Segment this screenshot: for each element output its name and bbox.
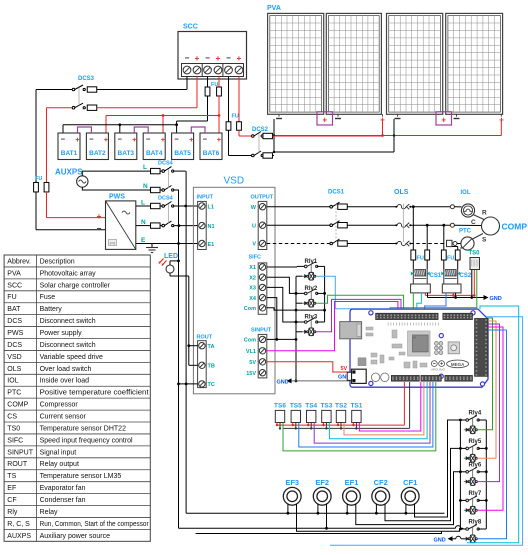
DCS2 label [252,127,269,133]
svg-text:L1: L1 [208,205,214,211]
disconnect switch DCS4b N [151,221,198,228]
svg-text:BAT3: BAT3 [118,150,135,157]
header top B [443,313,473,319]
svg-text:BAT6: BAT6 [203,150,220,157]
svg-text:−: − [203,135,208,144]
svg-text:Rly5: Rly5 [469,439,482,445]
svg-text:Fuse: Fuse [40,294,56,301]
legend table [4,255,150,541]
svg-text:AUXPS: AUXPS [7,533,31,540]
panel feet [279,114,501,116]
battery BAT5 [172,133,195,160]
PVA plus terminal P4 [499,116,504,125]
wire Rly6 coil [477,330,499,482]
svg-text:MEGA: MEGA [451,362,465,367]
wire bundle lightblue [330,317,523,545]
wire W to IOL [410,205,461,209]
fan CF2 [372,487,390,505]
battery jumper BAT5-BAT6 [191,127,205,133]
header top A [376,313,439,319]
svg-text:R: R [482,210,487,217]
svg-text:Variable speed drive: Variable speed drive [40,354,103,361]
svg-text:BAT: BAT [7,306,21,313]
svg-text:TS0: TS0 [7,425,20,432]
pin row labels [388,323,438,326]
svg-text:Abbrev.: Abbrev. [7,258,31,265]
svg-text:TS6: TS6 [274,403,286,410]
svg-text:BAT2: BAT2 [89,150,106,157]
wire CF2 left leg [375,504,378,515]
wire com chain [295,276,303,382]
FU label cs1 [417,256,424,262]
svg-text:VL1: VL1 [246,349,256,355]
svg-text:E1: E1 [208,242,215,248]
mounting hole [480,382,484,386]
wire GND gray [292,380,353,382]
N label pws [141,219,146,226]
svg-text:L: L [141,200,145,207]
wire feeder v2 [185,171,188,513]
temperature sensor TS1 [352,410,361,422]
wire SCC t2 down [196,77,198,108]
ARDUINO text [431,368,446,372]
wire fan bus A [186,512,444,514]
svg-text:Disconnect switch: Disconnect switch [40,342,96,349]
svg-text:S: S [482,237,487,244]
relay Rly2 [302,289,318,307]
wire relay right bus [485,420,488,529]
svg-text:SINPUT: SINPUT [251,328,272,334]
fuse FU pv plus [237,77,242,137]
PVA series jumper J2 [436,112,452,125]
svg-text:CF1: CF1 [403,478,417,487]
wire TB [189,364,198,366]
svg-text:+: + [189,135,194,144]
svg-text:+: + [216,54,221,63]
Rly4 label [469,411,482,417]
svg-text:+: + [322,116,327,125]
svg-text:−: − [174,135,179,144]
svg-text:Battery: Battery [40,306,63,313]
svg-text:CS2: CS2 [460,273,472,279]
svg-text:R, C, S: R, C, S [7,521,30,528]
wire EF3 feed [297,504,467,531]
svg-text:FU: FU [7,294,16,301]
svg-text:Rly4: Rly4 [469,411,482,417]
GND arrow sinput [277,378,292,385]
svg-text:DCS: DCS [7,318,22,325]
svg-text:TS5: TS5 [290,403,302,410]
wire TS1 data [359,382,420,431]
mounting hole [439,374,443,378]
wire PWS E line [136,242,198,245]
svg-text:TS: TS [7,473,16,480]
PVA plus terminal P2 [380,116,385,125]
svg-text:OLS: OLS [394,189,409,196]
wire Rly8 coil [477,330,506,539]
wire bundle [488,329,507,331]
wire bundle cyan [467,306,519,543]
svg-text:CF2: CF2 [374,478,388,487]
svg-text:Rly6: Rly6 [469,463,482,469]
wire TS0 5V [473,270,475,296]
header bottom power [391,375,419,381]
FU label pv [232,114,239,120]
svg-text:IOL: IOL [7,378,18,385]
svg-text:IPM: IPM [110,241,116,245]
ICSP header [435,342,443,355]
svg-text:PVA: PVA [267,5,281,12]
svg-text:CF: CF [7,497,16,504]
disconnect switch DCS2 pole 1 [239,132,383,139]
L label pws [141,200,145,207]
MEGA logo [447,360,469,368]
wire CF1 left leg [405,504,408,515]
wire TS4 data [314,382,430,443]
svg-text:EF: EF [7,485,16,492]
minus label pws [97,224,102,233]
wire relay right bus [317,266,326,322]
wire CS2 blue [425,293,446,313]
X4 label [249,296,257,302]
svg-text:OUTPUT: OUTPUT [251,195,274,201]
wire LED bottom [170,273,189,365]
svg-text:−: − [226,54,231,63]
USB connector [340,322,362,339]
svg-text:Speed input frequency control: Speed input frequency control [40,437,133,444]
power LED group [371,353,384,364]
wire SINPUT Com [267,338,296,340]
GND arrow right [484,295,502,302]
compressor COMP [482,217,500,235]
fuse FU cs2b [452,247,460,270]
GND label jack [338,374,350,380]
svg-text:TS0: TS0 [469,251,481,257]
fuse FU cs1a [411,207,416,269]
svg-text:−: − [61,135,66,144]
svg-text:DCS4: DCS4 [158,161,174,167]
svg-text:+: + [104,135,109,144]
wire CS2 5V [452,293,454,296]
wire 5V rail [425,294,475,297]
wire CS2 gnd [455,293,457,298]
fan CF1 [401,487,419,505]
temperature sensor TS2 [336,410,345,422]
VSD OUTPUT terminals [258,201,267,249]
DCS3 label [78,76,95,82]
wire VL1 magenta [267,302,398,351]
AUXPS label [55,168,83,177]
svg-text:15V: 15V [246,371,256,377]
SIFC label [249,255,262,261]
CF2 label [374,478,388,487]
svg-text:−: − [205,54,210,63]
wire PWS N line [136,225,151,227]
15V label sinput [246,371,256,377]
svg-text:+: + [441,116,446,125]
svg-text:ROUT: ROUT [197,335,213,341]
TB label [208,364,215,370]
FU label left [35,176,42,182]
svg-text:Auxiliary power source: Auxiliary power source [40,533,111,540]
svg-text:SIFC: SIFC [7,437,23,444]
svg-text:N: N [141,219,146,226]
CS1 label [430,273,442,279]
fan EF2 [313,487,331,505]
relay Rly1 [302,262,318,280]
svg-text:Positive temperature coefficie: Positive temperature coefficient [40,390,149,397]
wire TC [179,383,198,385]
wire AUXPS L [82,171,151,176]
relay Rly8 [460,525,486,543]
Rly1 label [305,259,318,265]
wire TS0 data [390,270,477,314]
wire LED top [170,260,180,266]
wire battery minus bus [63,123,178,133]
svg-text:+: + [75,135,80,144]
wire Rly5 coil [477,330,496,458]
svg-text:SIFC: SIFC [249,255,262,261]
svg-text:COMP: COMP [502,222,528,232]
svg-text:BAT4: BAT4 [146,150,163,157]
svg-text:TA: TA [208,344,215,350]
reset button [448,342,459,354]
wire TS2 data [344,382,424,435]
wire TS3 data [329,382,427,439]
EF2 label [315,478,329,487]
svg-text:EF3: EF3 [285,478,299,487]
svg-text:5V: 5V [249,360,256,366]
wire CS1 green [412,293,414,313]
wire PWS L line [136,205,151,207]
svg-text:GND: GND [434,537,446,543]
header right digital [475,318,489,376]
chip 8u2 [358,358,366,366]
fuse FU cs1b [425,225,430,269]
mounting hole [471,311,475,315]
svg-text:FU: FU [35,176,42,182]
wire gnd long [196,531,442,533]
wire phase U [267,224,330,226]
N label auxps [143,183,148,190]
wire phase V dashed [267,243,330,245]
svg-text:Compressor: Compressor [40,402,79,409]
svg-text:X4: X4 [249,296,257,302]
wire SCC t1 down [186,77,188,90]
VSD ROUT terminals [198,341,207,388]
svg-text:L: L [143,164,147,171]
variable speed drive VSD box [193,187,275,393]
svg-text:PVA: PVA [7,270,21,277]
svg-text:TC: TC [208,382,215,388]
current sensor CS1 coil [411,269,430,284]
wire PVA plus bus [270,121,502,137]
C label [471,219,476,226]
svg-text:Com: Com [244,306,256,312]
svg-text:+: + [132,135,137,144]
svg-text:ROUT: ROUT [7,461,28,468]
IOL label [461,190,471,196]
svg-text:U: U [252,224,256,230]
power supply PWS box [106,201,136,250]
battery BAT4 [143,133,166,160]
wire Rly1 blue [316,276,409,313]
svg-text:Run, Common, Start of the comp: Run, Common, Start of the compessor [40,521,150,528]
VL1 label sinput [246,349,256,355]
Rly7 label [469,491,482,497]
relay Rly5 [460,444,486,462]
svg-text:Power supply: Power supply [40,330,83,337]
svg-text:X3: X3 [249,286,256,292]
PVA minus terminals [276,118,460,120]
fuse FU battery plus [44,182,105,217]
N1 label [208,224,215,230]
TS3 label [320,403,332,410]
SCC terminal strip [182,64,244,77]
L1 label [208,205,214,211]
fan EF3 [283,487,301,505]
wire X1 [267,265,304,268]
disconnect switch DCS4a L [151,167,186,174]
svg-text:PWS: PWS [109,194,125,201]
TS0 label [469,251,481,257]
fuse FU pv minus [226,77,231,156]
minus plus marks [431,361,444,367]
S label [482,237,487,244]
INPUT label [197,195,214,201]
svg-text:Rly8: Rly8 [469,520,482,526]
svg-text:COMP: COMP [7,402,28,409]
wire bundle [488,318,493,330]
svg-text:VSD: VSD [7,354,21,361]
svg-text:PTC: PTC [459,229,472,235]
wire Rly3 violet [316,299,401,331]
DCS4a link [168,169,170,188]
svg-text:VSD: VSD [224,176,245,187]
wire feeder v1 [177,190,180,528]
TS5 label [290,403,302,410]
PVA label [267,5,281,12]
svg-text:AUXPS: AUXPS [55,168,83,177]
TC label [208,382,215,388]
Rly2 label [305,286,318,292]
battery jumper BAT1-BAT2 [78,127,92,133]
LED label [164,253,178,260]
wire SIFC Com [267,308,326,312]
svg-text:GND: GND [490,296,502,302]
SCC polarity labels [185,54,242,64]
mounting hole [439,334,443,338]
thermistor PTC [460,237,474,250]
svg-text:N1: N1 [208,224,215,230]
L label auxps [143,164,147,171]
solar charge controller SCC box [178,32,247,80]
wire IOL to R [473,215,484,220]
svg-text:−: − [185,54,190,63]
svg-text:5V: 5V [341,366,348,372]
temperature sensor TS6 [275,410,284,422]
battery BAT6 [200,133,222,160]
svg-text:FU: FU [417,256,424,262]
OLS link [402,204,404,243]
svg-text:BAT1: BAT1 [61,150,78,157]
battery jumper BAT3-BAT4 [134,127,148,133]
wire phase W [267,206,330,208]
svg-text:V: V [252,242,256,248]
Com label [244,306,256,312]
svg-text:−: − [97,224,102,233]
misc smd parts [366,327,427,368]
X3 label [249,286,256,292]
U label [252,224,256,230]
wire rly8 gnd [434,536,466,543]
Arduino Mega board [350,309,488,387]
svg-text:Rly7: Rly7 [469,491,482,497]
CF1 label [403,478,417,487]
fan EF1 [343,487,361,505]
battery BAT1 [58,133,80,160]
svg-text:DCS3: DCS3 [78,76,95,82]
wire TS0 gnd [471,270,473,298]
wire X4 [267,298,278,341]
svg-text:E: E [141,237,146,244]
Rly8 label [469,520,482,526]
svg-text:W: W [251,205,257,211]
disconnect switch DCS3 pole 1 [36,85,187,92]
svg-text:−: − [146,135,151,144]
temperature sensor TS4 [307,410,316,422]
current sensor CS2 body [442,284,461,293]
wire TS6 data [283,382,436,451]
SINPUT label [251,328,272,334]
Rly5 label [469,439,482,445]
wire DCS3 left red [46,108,48,183]
wire X2 [267,277,304,295]
svg-text:GND: GND [277,379,289,385]
over load switch OLS [395,204,411,246]
svg-text:DCS4: DCS4 [158,196,174,202]
solar panel P1 [268,13,324,114]
TS2 label [335,403,347,410]
svg-text:+: + [195,54,200,63]
wire U to COMP [410,223,481,227]
VSD INPUT terminals [198,201,207,249]
relay Rly3 [302,318,318,336]
fuse FU SCC t4 [217,77,222,134]
temperature sensor TS5 [291,410,300,422]
wire bundle [488,321,496,330]
svg-text:SCC: SCC [183,24,198,31]
svg-text:TS3: TS3 [320,403,332,410]
svg-text:EF2: EF2 [315,478,329,487]
COMP label [502,222,528,232]
FU label scc [211,82,218,88]
disconnect switch DCS4b L [151,202,198,209]
svg-text:DCS1: DCS1 [328,190,345,196]
wire TA [187,344,197,347]
temperature sensor TS3 [322,410,331,422]
svg-text:Disconnect switch: Disconnect switch [40,318,96,325]
5V label [341,366,348,372]
svg-text:Rly: Rly [7,509,18,516]
W label [251,205,257,211]
svg-text:TB: TB [208,364,215,370]
svg-text:Over load switch: Over load switch [40,366,92,373]
solar panel P4 [446,13,503,114]
svg-text:PWS: PWS [7,330,23,337]
wire 5V red [267,362,352,372]
wire EF2 left leg [317,504,320,515]
